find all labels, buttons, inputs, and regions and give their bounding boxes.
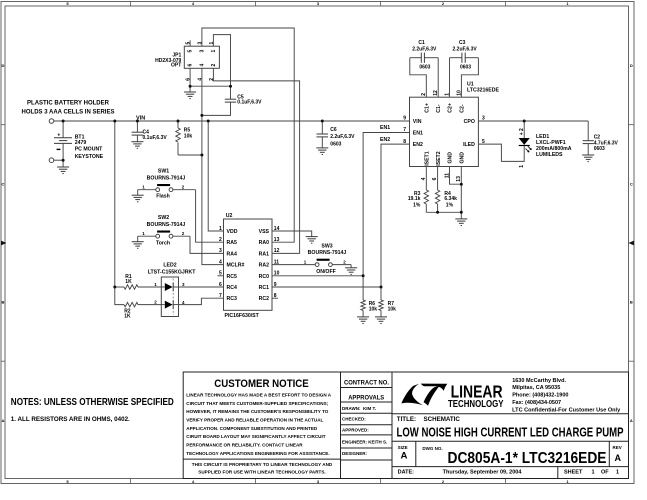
svg-text:13: 13: [456, 176, 462, 182]
svg-text:BOURNS-7914J: BOURNS-7914J: [147, 176, 186, 182]
wire VIN to R1/R2: [115, 121, 124, 305]
svg-text:4: 4: [200, 64, 206, 67]
svg-text:Phone: (408)432-1900: Phone: (408)432-1900: [512, 393, 568, 399]
svg-text:CONTRACT NO.: CONTRACT NO.: [344, 380, 389, 386]
svg-text:A: A: [401, 451, 408, 462]
title / dwg / rev / date row texts: [397, 416, 624, 476]
svg-text:1: 1: [444, 93, 450, 96]
svg-text:TITLE:: TITLE:: [397, 416, 416, 423]
svg-text:4: 4: [219, 259, 222, 265]
svg-text:7: 7: [219, 293, 222, 299]
Linear Technology logo: [401, 381, 503, 410]
JP1 pin 5 stub: [186, 40, 192, 46]
svg-text:ISET1: ISET1: [424, 151, 430, 166]
svg-text:12: 12: [433, 90, 439, 96]
wire GND pin11: [444, 167, 461, 185]
svg-text:ON/OFF: ON/OFF: [316, 269, 336, 275]
svg-text:NOTES: UNLESS OTHERWISE SPECI: NOTES: UNLESS OTHERWISE SPECIFIED: [11, 397, 174, 408]
svg-text:0603: 0603: [460, 65, 471, 71]
svg-text:C: C: [2, 182, 5, 187]
svg-text:1K: 1K: [125, 279, 132, 285]
wire EN1 (U1 pin7 to R6): [363, 125, 409, 300]
capacitor C3: [444, 40, 478, 97]
svg-text:RC2: RC2: [259, 296, 269, 302]
ground R6: [357, 317, 369, 324]
svg-text:SCHEMATIC: SCHEMATIC: [424, 416, 461, 423]
svg-text:HOWEVER, IT REMAINS THE CUSTOM: HOWEVER, IT REMAINS THE CUSTOMER'S RESPO…: [186, 409, 328, 414]
svg-text:4: 4: [197, 78, 203, 81]
svg-text:C1: C1: [418, 40, 425, 46]
svg-text:SW2: SW2: [158, 215, 169, 221]
resistor R2: [124, 302, 161, 319]
ground under C6: [316, 148, 328, 155]
wire RC0 to EN1 net: [272, 275, 363, 277]
svg-text:A: A: [615, 453, 622, 463]
capacitor C1: [410, 40, 439, 97]
svg-text:2479: 2479: [75, 140, 87, 146]
resistor R5: [176, 121, 202, 155]
svg-text:D: D: [630, 63, 633, 68]
svg-text:C1-: C1-: [436, 104, 442, 113]
svg-text:D: D: [2, 63, 5, 68]
svg-text:BOURNS-7914J: BOURNS-7914J: [147, 222, 186, 228]
svg-text:THIS CIRCUIT IS PROPRIETARY TO: THIS CIRCUIT IS PROPRIETARY TO LINEAR TE…: [192, 462, 333, 467]
svg-text:DESIGNER:: DESIGNER:: [342, 451, 368, 456]
svg-text:2.2uF,6.3V: 2.2uF,6.3V: [453, 47, 478, 53]
svg-text:DATE:: DATE:: [398, 469, 415, 475]
svg-text:DRAWN:: DRAWN:: [342, 406, 361, 411]
wire VDD vertical: [208, 121, 223, 231]
capacitor C2: [583, 121, 619, 155]
header JP1: [155, 46, 219, 68]
ground under BT1: [57, 160, 69, 173]
svg-text:B: B: [2, 300, 5, 305]
wire LED2 pin3 to RC4: [179, 286, 224, 288]
svg-text:3: 3: [200, 50, 206, 53]
capacitor C5: [202, 86, 262, 115]
svg-text:Milpitas, CA 95035: Milpitas, CA 95035: [512, 385, 560, 391]
svg-text:PIC16F630/ST: PIC16F630/ST: [225, 313, 260, 319]
terminal top: [49, 119, 54, 124]
svg-text:RC5: RC5: [227, 274, 237, 280]
svg-text:10k: 10k: [388, 307, 397, 313]
svg-text:KIM T.: KIM T.: [363, 406, 376, 411]
svg-text:CPO: CPO: [464, 119, 475, 125]
svg-text:1: 1: [211, 50, 217, 53]
svg-text:C3: C3: [459, 40, 466, 46]
svg-text:PERFORMANCE OR RELIABILITY. C: PERFORMANCE OR RELIABILITY. CONTACT LINE…: [186, 443, 303, 448]
resistor R1: [124, 274, 161, 289]
ground under JP1 pin6: [184, 86, 196, 98]
svg-text:0.1uF,6.3V: 0.1uF,6.3V: [237, 100, 262, 106]
ground R3/R4/GND pins: [455, 219, 467, 226]
svg-text:TECHNOLOGY: TECHNOLOGY: [448, 399, 504, 410]
ground SW3: [345, 265, 357, 275]
svg-text:DC805A-1* LTC3216EDE: DC805A-1* LTC3216EDE: [448, 450, 607, 467]
svg-text:RA0: RA0: [259, 240, 269, 246]
svg-text:1: 1: [592, 469, 595, 475]
notes: [11, 397, 174, 423]
svg-text:PC MOUNT: PC MOUNT: [75, 147, 103, 153]
svg-text:EN2: EN2: [413, 142, 423, 148]
svg-text:0603: 0603: [330, 142, 341, 148]
microcontroller U2: [219, 213, 280, 319]
svg-text:2: 2: [219, 237, 222, 243]
svg-text:DWG NO.: DWG NO.: [422, 446, 442, 451]
svg-text:APPLICATION. COMPONENT SUBSTI: APPLICATION. COMPONENT SUBSTITUTION AND …: [186, 426, 318, 431]
svg-text:CIRCUIT THAT MEETS CUSTOMER-SU: CIRCUIT THAT MEETS CUSTOMER-SUPPLIED SPE…: [186, 401, 328, 406]
svg-text:Fax: (408)434-0507: Fax: (408)434-0507: [512, 400, 561, 406]
svg-text:LUMILEDS: LUMILEDS: [536, 152, 563, 158]
svg-text:Flash: Flash: [156, 194, 170, 200]
battery holder note: [22, 100, 115, 115]
svg-text:RC3: RC3: [227, 296, 237, 302]
switch SW2: [138, 215, 190, 246]
svg-text:6.34k: 6.34k: [444, 196, 457, 202]
wire CPO to C2: [478, 120, 588, 122]
svg-text:ILED: ILED: [463, 142, 475, 148]
svg-text:1%: 1%: [446, 203, 454, 209]
svg-text:10k: 10k: [369, 307, 378, 313]
svg-text:C2-: C2-: [459, 104, 465, 113]
title block: contract/approvals texts: [342, 380, 389, 456]
svg-text:1%: 1%: [413, 203, 421, 209]
svg-text:1: 1: [209, 42, 215, 45]
svg-text:3: 3: [219, 248, 222, 254]
svg-text:10: 10: [456, 90, 462, 96]
svg-text:4: 4: [421, 177, 427, 180]
svg-text:CIRUIT BOARD LAYOUT MAY SIGNIF: CIRUIT BOARD LAYOUT MAY SIGNIFICANTLY AF…: [186, 434, 325, 439]
capacitor C4: [132, 121, 168, 142]
svg-text:6: 6: [432, 177, 438, 180]
ground C2: [582, 155, 594, 162]
svg-text:LTC3216EDE: LTC3216EDE: [467, 88, 499, 94]
terminal bottom: [49, 158, 63, 163]
switch SW3: [272, 243, 351, 275]
svg-text:LINEAR TECHNOLOGY HAS MADE A B: LINEAR TECHNOLOGY HAS MADE A BEST EFFORT…: [186, 393, 331, 398]
switch SW1: [138, 168, 196, 199]
svg-text:0603: 0603: [419, 65, 430, 71]
svg-text:ENGINEER: KEITH S.: ENGINEER: KEITH S.: [342, 440, 387, 445]
ground SW2: [132, 236, 144, 248]
svg-text:6: 6: [188, 64, 194, 67]
svg-text:1: 1: [519, 165, 525, 168]
svg-text:1: 1: [219, 226, 222, 232]
svg-text:TECHNOLOGY APPLICATIONS ENGINE: TECHNOLOGY APPLICATIONS ENGINEERING FOR …: [186, 451, 329, 456]
resistor R6: [361, 300, 377, 317]
svg-text:2: 2: [421, 93, 427, 96]
resistor R7: [379, 300, 396, 317]
svg-text:SIZE: SIZE: [398, 445, 408, 450]
svg-text:EN2: EN2: [380, 137, 390, 143]
svg-text:C: C: [630, 182, 633, 187]
svg-text:Thursday, September 09, 2004: Thursday, September 09, 2004: [443, 469, 523, 475]
svg-text:LED2: LED2: [163, 262, 176, 268]
node VIN rail: [54, 116, 410, 122]
capacitor C6: [317, 121, 356, 148]
svg-text:RC4: RC4: [227, 285, 237, 291]
svg-text:1630 McCarthy Blvd.: 1630 McCarthy Blvd.: [512, 378, 566, 384]
svg-text:+ 2: + 2: [519, 128, 525, 135]
battery BT1: [54, 121, 104, 160]
svg-text:GND: GND: [459, 152, 465, 164]
wire GND pin13: [456, 167, 462, 219]
svg-text:APPROVALS: APPROVALS: [348, 396, 384, 402]
svg-text:APPROVED:: APPROVED:: [342, 428, 369, 433]
charge pump U1: [403, 82, 499, 167]
svg-text:B: B: [630, 300, 633, 305]
svg-text:13: 13: [274, 237, 280, 243]
svg-text:LOW NOISE HIGH CURRENT LED CHA: LOW NOISE HIGH CURRENT LED CHARGE PUMP: [397, 426, 624, 440]
svg-text:0603: 0603: [594, 146, 605, 152]
svg-text:RC1: RC1: [259, 285, 269, 291]
svg-text:RC0: RC0: [259, 274, 269, 280]
wire RC1 to EN2 net: [272, 286, 381, 288]
ground R7: [375, 317, 387, 324]
svg-text:C6: C6: [330, 127, 337, 133]
svg-text:A: A: [630, 418, 633, 423]
svg-text:LTC Confidential-For Customer: LTC Confidential-For Customer Use Only: [512, 407, 620, 413]
svg-text:9: 9: [403, 116, 406, 122]
wire SW2 to RA4: [190, 236, 224, 253]
svg-text:PLASTIC BATTERY HOLDER: PLASTIC BATTERY HOLDER: [27, 100, 110, 106]
svg-text:3: 3: [197, 42, 203, 45]
resistor R4: [432, 167, 457, 213]
U2 pin5 stub: [218, 275, 224, 277]
wire JP1 pin1 to C5/gnd node: [209, 35, 231, 87]
svg-text:MCLR#: MCLR#: [227, 263, 245, 269]
svg-text:2.2uF,6.3V: 2.2uF,6.3V: [330, 134, 355, 140]
wire JP1 pin6 to ground rail: [186, 68, 231, 86]
svg-text:10k: 10k: [184, 134, 193, 140]
wire ISET bottom rail: [426, 211, 461, 213]
svg-text:SUPPLIED FOR USE WITH LINEAR T: SUPPLIED FOR USE WITH LINEAR TECHNOLOGY …: [198, 470, 325, 475]
ground VSS: [306, 237, 318, 244]
svg-text:C1+: C1+: [424, 103, 430, 113]
svg-text:SW3: SW3: [321, 243, 332, 249]
svg-text:VIN: VIN: [413, 119, 422, 125]
svg-text:EN1: EN1: [380, 125, 390, 131]
svg-text:VERIFY PROPER AND RELIABLE OPE: VERIFY PROPER AND RELIABLE OPERATION IN …: [186, 418, 323, 423]
svg-text:EN1: EN1: [413, 131, 423, 137]
customer notice: [186, 378, 333, 475]
svg-text:SW1: SW1: [158, 168, 169, 174]
svg-text:Torch: Torch: [156, 240, 170, 246]
wire LED2 pin4 to RC3: [179, 298, 224, 304]
wire SW1 to RA5: [196, 190, 224, 243]
svg-text:2: 2: [209, 78, 215, 81]
ground under C4: [131, 142, 143, 149]
svg-text:KEYSTONE: KEYSTONE: [75, 154, 104, 160]
svg-text:RA2: RA2: [259, 263, 269, 269]
svg-text:BOURNS-7914J: BOURNS-7914J: [308, 250, 347, 256]
wire MCLR vertical (JP1 pin4 / C5 / R5 to U2 pin4): [202, 68, 224, 264]
svg-text:1: 1: [616, 469, 619, 475]
svg-text:C2+: C2+: [448, 103, 454, 113]
svg-text:VDD: VDD: [227, 229, 238, 235]
svg-text:RA1: RA1: [259, 251, 269, 257]
svg-text:6: 6: [219, 282, 222, 288]
wire JP1 pin3 to RA0: [197, 28, 294, 242]
svg-text:11: 11: [444, 173, 450, 179]
svg-text:12: 12: [274, 248, 280, 254]
svg-text:GND: GND: [448, 152, 454, 164]
LED LED1: [519, 121, 572, 168]
svg-text:6: 6: [186, 78, 192, 81]
svg-text:2.2uF,6.3V: 2.2uF,6.3V: [412, 47, 437, 53]
svg-text:ISET2: ISET2: [436, 151, 442, 166]
LED2 dual LED: [148, 262, 197, 316]
svg-text:1K: 1K: [124, 314, 131, 320]
ground SW1: [132, 190, 144, 202]
svg-text:CUSTOMER NOTICE: CUSTOMER NOTICE: [214, 378, 309, 390]
svg-text:HOLDS 3 AAA CELLS IN SERIES: HOLDS 3 AAA CELLS IN SERIES: [22, 109, 115, 115]
svg-text:RA4: RA4: [227, 251, 237, 257]
svg-text:1. ALL RESISTORS ARE IN OHMS,: 1. ALL RESISTORS ARE IN OHMS, 0402.: [11, 416, 130, 423]
svg-text:REV: REV: [613, 445, 622, 450]
svg-text:2: 2: [211, 64, 217, 67]
svg-text:RA5: RA5: [227, 240, 237, 246]
svg-text:CHECKED:: CHECKED:: [342, 417, 366, 422]
svg-text:7: 7: [403, 127, 406, 133]
wire JP1 pin2 to RA1: [209, 68, 300, 253]
svg-text:5: 5: [186, 42, 192, 45]
svg-text:5: 5: [188, 50, 194, 53]
svg-text:+: +: [57, 133, 60, 139]
resistor R3: [408, 167, 429, 213]
wire ILED to LED1: [478, 144, 524, 161]
svg-text:OF: OF: [601, 469, 609, 475]
svg-text:OPT: OPT: [171, 63, 181, 69]
wire EN2 (U1 pin8 to R7): [380, 137, 410, 300]
svg-text:U2: U2: [226, 213, 233, 219]
title block: [183, 372, 628, 479]
svg-text:SHEET: SHEET: [564, 469, 583, 475]
svg-text:VSS: VSS: [259, 229, 270, 235]
svg-text:19.1k: 19.1k: [408, 196, 421, 202]
svg-text:LTST-C155KGJRKT: LTST-C155KGJRKT: [148, 269, 197, 275]
U2 pin8 stub: [272, 297, 278, 299]
svg-text:8: 8: [403, 139, 406, 145]
address block: [512, 378, 620, 414]
svg-text:A: A: [2, 418, 5, 423]
svg-text:0.1uF,6.3V: 0.1uF,6.3V: [143, 135, 168, 141]
wire VSS to ground: [272, 231, 312, 237]
